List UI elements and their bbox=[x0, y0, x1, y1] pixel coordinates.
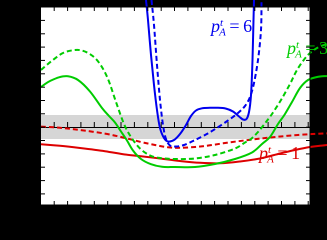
green dashed curve bbox=[41, 44, 327, 159]
green solid curve bbox=[41, 76, 327, 167]
plot background bbox=[41, 7, 311, 205]
blue dashed curve bbox=[152, 0, 262, 147]
svg-text:ptA = 3: ptA = 3 bbox=[285, 38, 327, 61]
zero axis ticks bbox=[54, 122, 308, 127]
uncertainty band bbox=[41, 115, 311, 139]
zero axis line bbox=[41, 127, 311, 129]
frame ticks top/bottom bbox=[54, 7, 308, 205]
frame ticks left/right bbox=[41, 20, 310, 194]
svg-text:ptA = 1: ptA = 1 bbox=[257, 143, 300, 166]
red dashed curve bbox=[41, 127, 327, 148]
svg-text:ptA = 6: ptA = 6 bbox=[209, 16, 252, 39]
blue solid curve bbox=[146, 0, 254, 142]
red solid curve bbox=[41, 144, 327, 163]
